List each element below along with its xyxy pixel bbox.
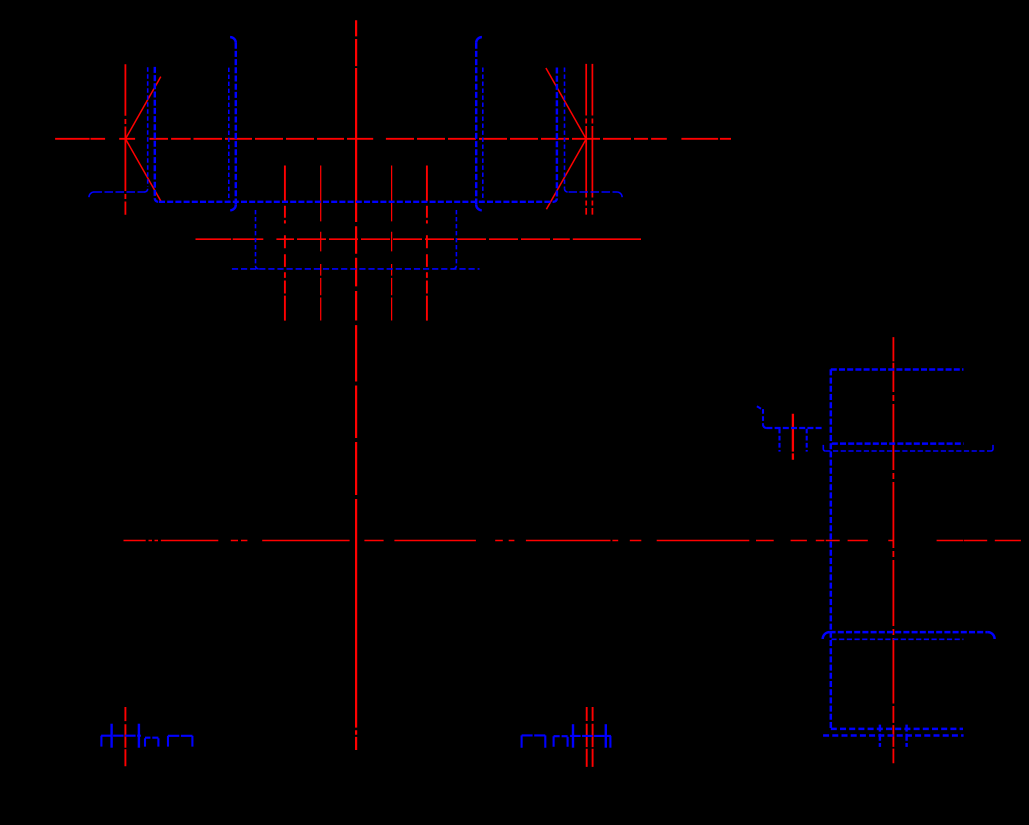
centerline fork hole 1 x=285 <box>284 166 286 321</box>
hidden side view step y=639 <box>831 638 963 640</box>
hidden bracket inner vertical x=807 <box>806 429 808 452</box>
hidden fork left vertical x=255 <box>255 210 257 266</box>
hidden side lower tangent y=632 <box>830 631 988 634</box>
hidden body top horizontal y=202 <box>159 201 554 203</box>
centerline fork hole 2 x=321 <box>320 166 322 321</box>
centerline right hub vertical x=586 <box>585 64 587 215</box>
hidden fork bottom horizontal y=269 <box>232 268 480 270</box>
hidden bracket horizontal y=428 <box>766 427 822 429</box>
hidden left flange lip y=192 <box>93 191 145 193</box>
tick bottom-left x=112 <box>110 724 112 748</box>
hook left flange lip end <box>89 192 94 197</box>
left V arrow upper leg <box>126 77 161 139</box>
hidden side view left vertical x=831 <box>830 369 833 729</box>
hidden fork right vertical x=456 <box>455 210 457 266</box>
centerline main horizontal axis y=139 <box>55 138 731 140</box>
centerline left hub vertical x=125 <box>124 64 126 215</box>
tick side view bottom x=880 <box>879 725 881 747</box>
hook right bore bottom <box>476 205 482 211</box>
tick bottom-middle x=573 <box>572 724 574 748</box>
outline bottom-middle end drop x=610 <box>609 736 611 748</box>
fillet left flange-to-lip <box>145 189 148 192</box>
hidden right flange lip y=192 <box>569 191 618 193</box>
centerline bottom-left view x=125 <box>124 707 126 766</box>
hidden side view step y=444 <box>832 442 964 445</box>
hidden right outer flange vertical x=564 <box>564 68 566 189</box>
fillet fork left corner <box>256 266 259 269</box>
fillet fork right corner <box>453 266 456 269</box>
centerline fork hole 4 x=427 <box>426 166 428 321</box>
right V arrow upper leg <box>546 68 586 139</box>
corner bracket <box>763 425 766 428</box>
corner right flange-to-body <box>554 198 557 201</box>
outline bottom-left small channel <box>145 738 158 747</box>
outline bottom-middle big channel <box>522 735 546 747</box>
hook right bore top <box>476 37 482 43</box>
centerline bottom-middle view x=587 <box>586 707 588 767</box>
hook side lower tangent right <box>988 632 995 639</box>
hook left bore top <box>230 37 236 43</box>
tick bottom-middle x=606 <box>605 724 607 748</box>
centerline side view vertical x=893 <box>892 337 894 763</box>
hook right flange lip end <box>618 192 623 197</box>
outline bottom-left end drop x=101 <box>100 736 102 747</box>
tick bottom-left x=139 <box>138 724 140 748</box>
outline bottom-left horizontal y=736 <box>101 735 141 737</box>
hidden right bore vertical x=476 <box>475 43 477 205</box>
hidden side view top horizontal y=369 <box>831 368 964 371</box>
centerline right hub vertical x=592 <box>591 64 593 215</box>
hidden left inner flange vertical x=155 <box>154 67 156 199</box>
centerline fork hole 3 x=392 <box>391 166 393 321</box>
hook side lower tangent left <box>823 632 830 639</box>
right V arrow lower leg <box>546 139 586 209</box>
hidden right inner flange vertical x=557 <box>556 68 558 199</box>
centerline fork horizontal y=239 <box>196 238 642 240</box>
centerline bracket vertical x=793 <box>792 414 794 460</box>
centerline long horizontal axis y=540 <box>124 540 1021 542</box>
hidden side view bottom y=729 <box>831 728 963 731</box>
outline bottom-middle horizontal y=736 <box>570 735 611 737</box>
hidden left bore vertical x=236 <box>235 43 237 205</box>
hidden left bore vertical x=229 <box>228 68 230 201</box>
bracket corner stub <box>757 406 761 408</box>
corner left flange-to-body <box>155 198 158 201</box>
hidden bracket inner vertical x=780 <box>778 429 780 452</box>
hidden bracket vertical x=763 <box>762 409 764 425</box>
tick side view bottom x=907 <box>905 725 907 747</box>
centerline main vertical axis x=356 <box>355 20 357 750</box>
hidden right bore vertical x=483 <box>482 68 484 202</box>
outline bottom-middle small channel <box>554 736 568 747</box>
hidden side upper tangent y=451 <box>825 450 991 452</box>
left V arrow lower leg <box>126 139 162 202</box>
hidden left outer flange vertical x=148 <box>147 67 149 187</box>
hook left bore bottom <box>230 205 236 211</box>
hook side upper tangent left <box>823 445 825 451</box>
hidden side view bottom y=735 <box>823 734 964 737</box>
centerline bottom-middle view x=593 <box>592 707 594 767</box>
outline bottom-left big channel <box>168 736 192 747</box>
fillet right flange-to-lip <box>565 189 568 192</box>
hook side upper tangent right <box>991 445 993 451</box>
